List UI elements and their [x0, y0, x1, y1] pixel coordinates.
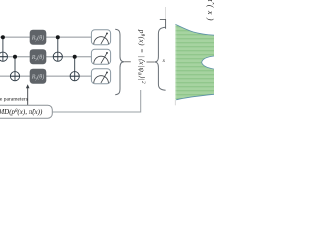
- brace grouping measurements: [115, 29, 124, 94]
- CNOT D target: [70, 72, 79, 81]
- Ry gate q0: [30, 30, 47, 45]
- measurement M0: [91, 30, 110, 45]
- Ry gate q1: [30, 49, 47, 64]
- svg-text:MMD(pθ(x), π̂(x)): MMD(pθ(x), π̂(x)): [0, 108, 43, 116]
- svg-text:Ry(θ): Ry(θ): [31, 54, 44, 61]
- CNOT D vertical wire: [74, 57, 76, 81]
- wire q0: [0, 36, 91, 38]
- measurement M1: [91, 49, 110, 64]
- svg-text:update parameters: update parameters: [0, 96, 28, 102]
- Ry gate q2: [30, 69, 47, 84]
- svg-text:pθ(x) = |⟨x|ψθ⟩|2: pθ(x) = |⟨x|ψθ⟩|2: [136, 29, 146, 84]
- connector formula to brace x: [147, 61, 155, 63]
- faint axis line top: [165, 7, 167, 19]
- CNOT A target: [0, 52, 8, 61]
- CNOT A control dot: [1, 35, 5, 39]
- brace x-range of plot: [154, 27, 165, 90]
- CNOT C vertical wire: [57, 37, 59, 61]
- wire q1: [0, 56, 91, 58]
- measurement M2: [91, 69, 110, 84]
- CNOT B vertical wire: [14, 57, 16, 81]
- CNOT C control dot: [56, 35, 60, 39]
- CNOT B target: [10, 72, 19, 81]
- connector brace to formula: [124, 61, 131, 63]
- CNOT B control dot: [13, 55, 17, 59]
- target distribution (rotated, striped): [172, 22, 214, 102]
- svg-text:Ry(θ): Ry(θ): [31, 35, 44, 42]
- MMD loss box: [0, 105, 52, 118]
- svg-text:x: x: [162, 58, 166, 64]
- update-parameters arrow: [27, 87, 29, 106]
- axis corner tick: [160, 19, 166, 28]
- feedback wire loss to MMD: [52, 90, 140, 112]
- svg-text:π̂(x): π̂(x): [206, 0, 214, 21]
- CNOT C target: [53, 52, 62, 61]
- faint plot baseline bottom: [174, 100, 176, 105]
- wire q2: [0, 75, 91, 77]
- svg-text:Ry(θ): Ry(θ): [31, 74, 44, 81]
- CNOT A vertical wire: [2, 37, 4, 61]
- CNOT D control dot: [73, 55, 77, 59]
